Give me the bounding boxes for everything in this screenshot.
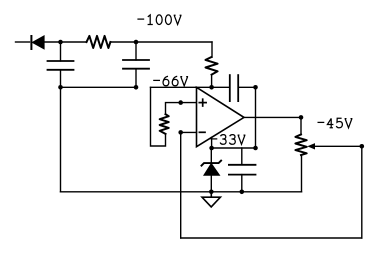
junction dot C3 at ground rail xyxy=(240,190,245,195)
capacitor C1 xyxy=(48,61,74,70)
potentiometer R4 xyxy=(295,135,306,156)
wire -66V loop left/bottom xyxy=(151,87,166,146)
junction dot top of output riser xyxy=(253,85,258,90)
op-amp plus symbol xyxy=(199,99,206,106)
junction dot plus input xyxy=(178,100,183,105)
wire left branch down xyxy=(60,87,62,192)
wire C3 to ground rail xyxy=(241,175,243,192)
wire -33V rail xyxy=(212,147,256,149)
wire -66V top segment xyxy=(151,86,230,88)
wire -100V rail down to R2 xyxy=(211,42,213,57)
wire joining C1 and C2 bottoms xyxy=(61,86,137,88)
wire op-amp output xyxy=(244,116,301,118)
wire ground rail xyxy=(61,191,302,193)
op-amp minus symbol xyxy=(199,131,205,133)
capacitor C4 feedback xyxy=(230,75,238,101)
node A junction dot xyxy=(58,40,63,45)
wire output down to pot xyxy=(300,117,302,134)
resistor R3 xyxy=(160,114,169,134)
junction dot R2 at op-amp top wire xyxy=(209,85,214,90)
wire input left segment xyxy=(16,41,30,43)
wire wiper to right riser xyxy=(314,145,362,147)
diode D1 anode triangle xyxy=(32,36,44,49)
wire node A down to capacitor C1 xyxy=(60,42,62,61)
junction dot minus input xyxy=(178,130,183,135)
wire zener to ground rail xyxy=(210,175,212,192)
op-amp U1 triangle xyxy=(197,87,245,146)
wire -33V rail down to zener xyxy=(210,148,212,163)
potentiometer wiper arrow xyxy=(309,144,315,149)
wire feedback bottom xyxy=(181,237,362,239)
wire C1 to bottom node xyxy=(60,70,62,88)
wire C2 to bottom node xyxy=(135,69,137,88)
wire diode to node A xyxy=(44,41,86,43)
capacitor C2 xyxy=(123,60,149,69)
label -66V xyxy=(153,76,188,86)
label -100V xyxy=(137,15,181,25)
wire R3 top to plus input xyxy=(166,103,197,115)
node B junction dot xyxy=(134,40,139,45)
junction dot -33V rail left xyxy=(209,146,214,151)
resistor R2 xyxy=(206,57,218,75)
zener diode D2 triangle xyxy=(204,164,220,176)
wire pot bottom riser xyxy=(301,155,303,192)
wire R1 to -100V rail corner xyxy=(110,41,212,43)
diode D1 cathode bar xyxy=(30,36,32,49)
junction dot wiper wire xyxy=(360,144,365,149)
wire minus input feedback drop xyxy=(180,132,182,238)
capacitor C3 xyxy=(229,165,256,175)
wire minus input xyxy=(181,131,197,133)
junction dot C2 bottom xyxy=(134,85,139,90)
wire node B down to capacitor C2 xyxy=(135,42,137,60)
zener diode D2 cathode bar xyxy=(202,161,222,166)
wire C4 right plate to output riser xyxy=(238,86,255,88)
junction dot C1 bottom xyxy=(58,85,63,90)
label -33V xyxy=(211,135,246,145)
junction dot output at pot xyxy=(299,115,304,120)
ground symbol xyxy=(202,192,220,207)
junction dot -33V rail right xyxy=(253,146,258,151)
op-amp negative supply pin xyxy=(211,137,213,148)
wire output riser down to -33V rail xyxy=(255,87,257,148)
junction dot zener at ground rail xyxy=(209,190,214,195)
wire feedback right riser xyxy=(361,146,363,238)
resistor R1 xyxy=(87,36,111,48)
wire R2 to op-amp top wire xyxy=(211,75,213,88)
label -45V xyxy=(318,118,353,128)
wire -33V rail down to C3 xyxy=(241,148,243,165)
